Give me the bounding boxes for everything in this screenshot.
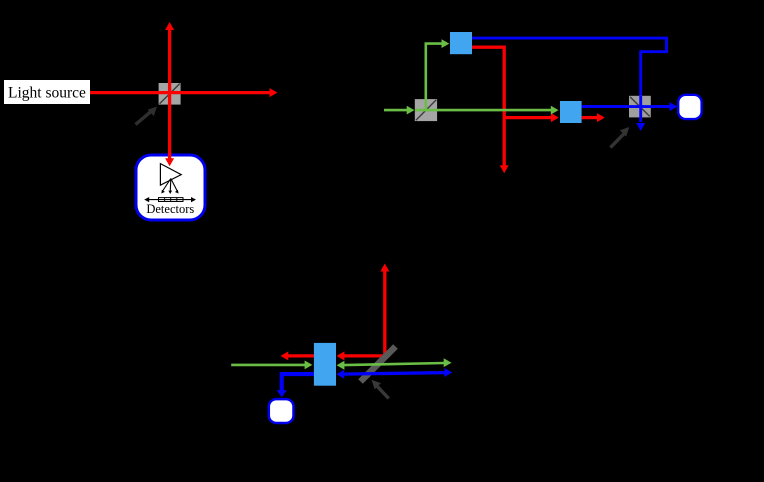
blue beam down arrowhead below BS3 (636, 123, 645, 131)
crystal A (blue square top) (450, 32, 472, 54)
green input beam (384, 106, 415, 115)
gray pointer arrow at mirror (372, 380, 389, 399)
red beam arrow into detectors box (165, 152, 174, 166)
green beam BS2 to crystal B (415, 106, 559, 115)
green beam up to crystal A (426, 39, 450, 110)
green beam right side (double headed) (337, 358, 452, 369)
red beam branch to crystal B (504, 113, 559, 122)
blue beam crystal B to detector (582, 102, 678, 111)
detector box bottom (269, 399, 294, 423)
red beam out left of crystal C (281, 351, 314, 360)
crystal C (blue rectangle) (314, 343, 336, 386)
detector box top-right (678, 95, 701, 119)
label Light source (4, 80, 90, 104)
svg-text:Detectors: Detectors (146, 202, 194, 216)
crystal B (blue square middle) (560, 101, 582, 123)
gray pointer arrow at BS1 (136, 107, 158, 125)
mirror (gray slab) (361, 347, 396, 382)
beam splitter BS3 (gray cube) (582, 96, 671, 122)
detectors box (136, 155, 205, 220)
red beam out of crystal B (582, 113, 605, 122)
beam splitter BS2 (gray cube) (415, 99, 437, 121)
red beam up arrow with bend into crystal C (337, 264, 390, 361)
red beam from crystal A (472, 47, 509, 173)
green beam in from left (231, 361, 312, 370)
detector icon sensor bar (159, 198, 184, 202)
detector icon prism triangle (160, 164, 181, 186)
svg-text:Light source: Light source (8, 84, 86, 101)
detector icon scan arrow (double headed) (144, 197, 196, 202)
red beam vertical (up arrow, down to detectors) (165, 22, 174, 166)
blue beam left to detector (277, 374, 314, 397)
beam splitter BS1 (gray cube) (159, 83, 181, 105)
red beam horizontal (light source to right) (90, 88, 278, 97)
detector icon fan rays (161, 179, 178, 195)
blue beam right side (double headed) (336, 368, 452, 379)
gray pointer arrow at BS3 (610, 127, 629, 148)
blue beam delay line from crystal A (472, 38, 667, 122)
